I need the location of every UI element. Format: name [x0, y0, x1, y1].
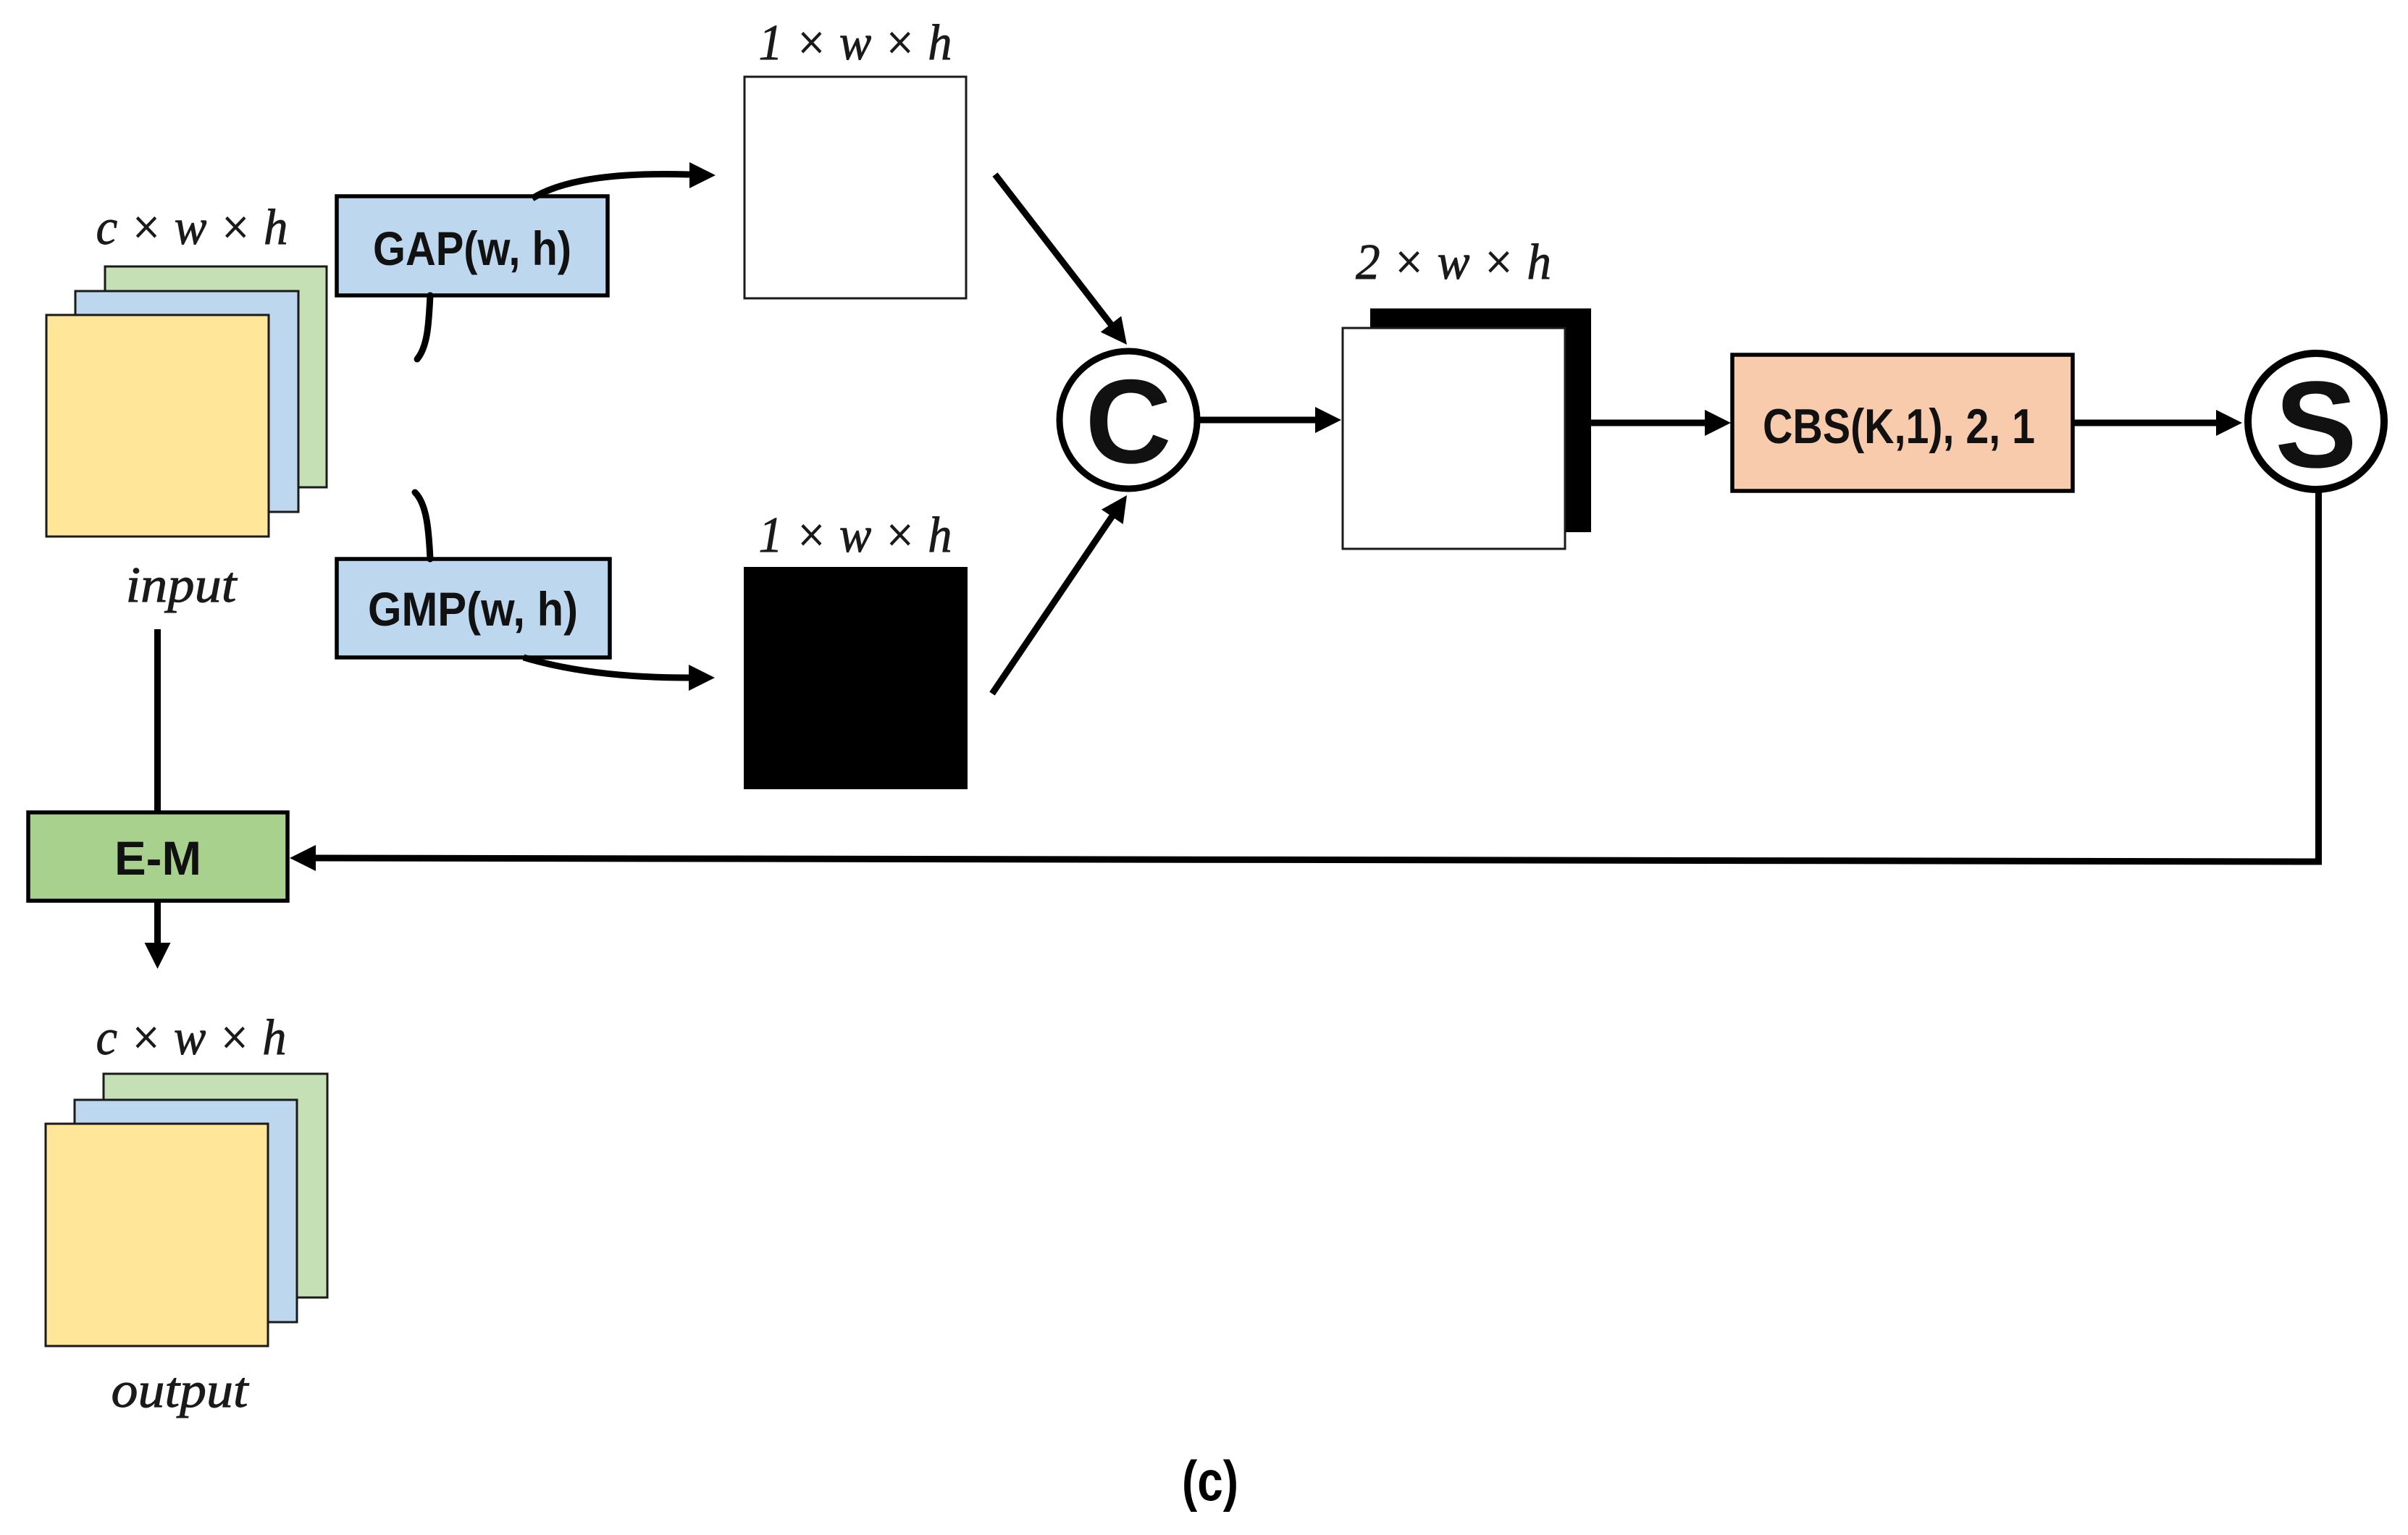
E-M box	[28, 812, 288, 901]
svg-text:CBS(K,1), 2, 1: CBS(K,1), 2, 1	[1763, 399, 2035, 454]
connector arc below GAP	[417, 295, 430, 359]
svg-text:1 × w × h: 1 × w × h	[759, 15, 952, 71]
svg-text:(c): (c)	[1182, 1449, 1238, 1513]
concatenated stack black layer	[1370, 308, 1591, 532]
output tensor green channel	[104, 1074, 327, 1298]
arrow avg map to concat C	[995, 174, 1111, 324]
concat node C	[1060, 351, 1197, 489]
sigmoid node S	[2248, 353, 2384, 489]
arrow stack to CBS	[1591, 420, 1705, 426]
avg pooled map (white square)	[744, 77, 966, 298]
arrow E-M down to output	[154, 901, 161, 943]
GAP box	[337, 196, 608, 295]
wire input down to E-M	[154, 629, 161, 812]
svg-text:input: input	[126, 558, 238, 613]
output tensor blue channel	[75, 1100, 297, 1322]
svg-text:output: output	[112, 1363, 250, 1418]
wire S down and back to E-M	[316, 489, 2319, 862]
svg-text:GAP(w, h): GAP(w, h)	[373, 222, 571, 275]
svg-text:c × w × h: c × w × h	[96, 200, 288, 256]
curved arrow GAP to avg map	[532, 174, 689, 198]
svg-text:c × w × h: c × w × h	[96, 1010, 287, 1066]
input tensor yellow channel	[46, 315, 269, 537]
svg-text:GMP(w, h): GMP(w, h)	[368, 582, 578, 636]
CBS conv box	[1732, 355, 2073, 491]
connector arc above GMP	[415, 492, 430, 559]
svg-text:1 × w × h: 1 × w × h	[759, 508, 952, 563]
arrow CBS to sigmoid S	[2073, 420, 2216, 426]
svg-text:2 × w × h: 2 × w × h	[1356, 235, 1551, 290]
svg-text:E-M: E-M	[114, 831, 201, 885]
GMP box	[337, 559, 610, 657]
arrow max map to concat C	[992, 515, 1113, 694]
concatenated stack white layer	[1343, 328, 1565, 549]
arrow C to concatenated stack	[1200, 417, 1315, 424]
input tensor green channel	[105, 266, 327, 487]
svg-text:C: C	[1085, 355, 1171, 488]
max pooled map (black square)	[744, 567, 968, 789]
output tensor yellow channel	[46, 1124, 268, 1346]
input tensor blue channel	[75, 291, 298, 512]
svg-text:S: S	[2275, 356, 2357, 494]
curved arrow GMP to max map	[524, 657, 689, 678]
